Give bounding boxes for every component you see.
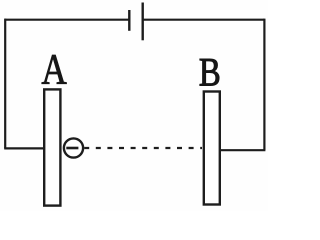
wire left vertical xyxy=(4,19,6,149)
plate B (right capacitor plate, rectangle outline) xyxy=(204,92,220,205)
wire right horizontal to plate B xyxy=(220,149,266,151)
minus sign inside charge circle xyxy=(66,147,78,150)
plate A (left capacitor plate, rectangle outline) xyxy=(44,89,60,205)
wire left horizontal to plate A xyxy=(4,147,43,149)
battery long plate (positive terminal) xyxy=(141,3,143,41)
svg-text:B: B xyxy=(199,49,221,94)
negative charge circle on plate A xyxy=(64,138,83,157)
wire right vertical xyxy=(263,19,265,151)
wire top-left horizontal segment xyxy=(5,19,129,21)
wire top-right horizontal segment xyxy=(143,19,265,21)
battery short plate (negative terminal) xyxy=(128,10,130,31)
svg-text:A: A xyxy=(41,45,67,93)
dashed line from charge to plate B xyxy=(84,147,202,149)
